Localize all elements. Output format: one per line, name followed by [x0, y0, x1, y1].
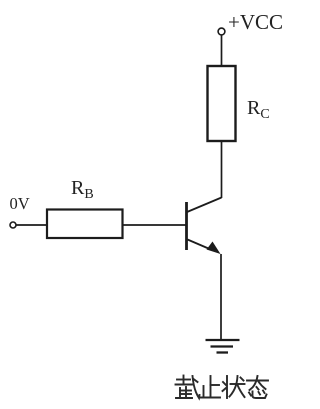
svg-text:RB: RB: [71, 177, 94, 202]
svg-text:RC: RC: [247, 97, 270, 122]
svg-text:+VCC: +VCC: [228, 10, 283, 34]
svg-text:0V: 0V: [10, 194, 30, 213]
